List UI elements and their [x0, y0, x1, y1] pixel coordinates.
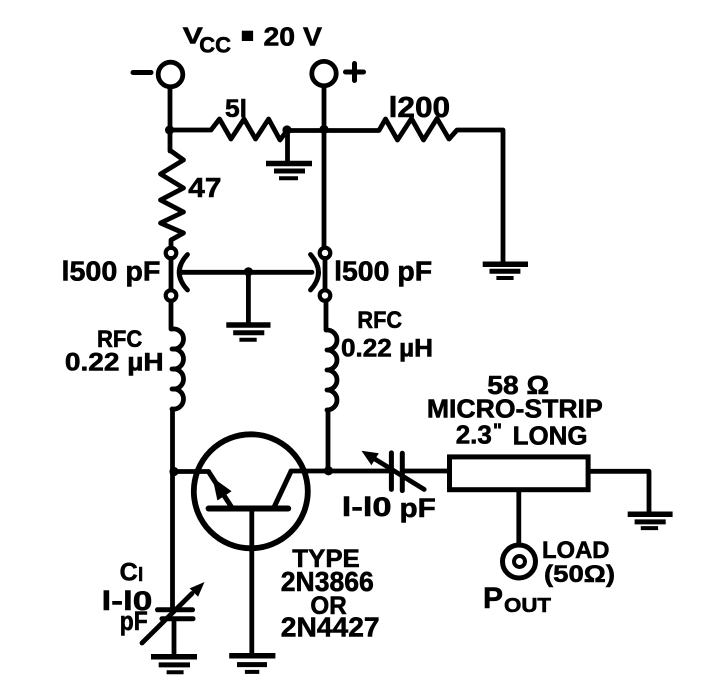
- svg-text:C: C: [120, 559, 138, 587]
- svg-text:LOAD: LOAD: [542, 537, 610, 564]
- svg-text:l200: l200: [389, 92, 451, 124]
- svg-text:47: 47: [188, 172, 221, 203]
- svg-text:": ": [493, 421, 502, 442]
- svg-text:CC: CC: [199, 32, 231, 57]
- svg-text:MICRO-STRIP: MICRO-STRIP: [427, 394, 603, 424]
- svg-text:pF: pF: [120, 606, 148, 636]
- svg-text:P: P: [483, 582, 503, 615]
- svg-text:2.3: 2.3: [456, 420, 492, 450]
- svg-text:5l: 5l: [225, 95, 247, 123]
- svg-text:0.22 µH: 0.22 µH: [341, 335, 433, 363]
- svg-text:0.22 µH: 0.22 µH: [65, 349, 164, 377]
- svg-text:RFC: RFC: [357, 307, 402, 334]
- svg-text:LONG: LONG: [513, 421, 588, 451]
- svg-text:l: l: [138, 565, 143, 586]
- svg-text:(50Ω): (50Ω): [544, 561, 615, 588]
- svg-text:l-l0: l-l0: [342, 492, 392, 522]
- svg-text:OUT: OUT: [504, 595, 551, 617]
- svg-text:l500 pF: l500 pF: [334, 256, 432, 287]
- svg-text:20 V: 20 V: [264, 21, 323, 51]
- svg-text:pF: pF: [400, 493, 436, 523]
- svg-text:l500 pF: l500 pF: [62, 256, 161, 287]
- svg-text:2N4427: 2N4427: [281, 612, 380, 643]
